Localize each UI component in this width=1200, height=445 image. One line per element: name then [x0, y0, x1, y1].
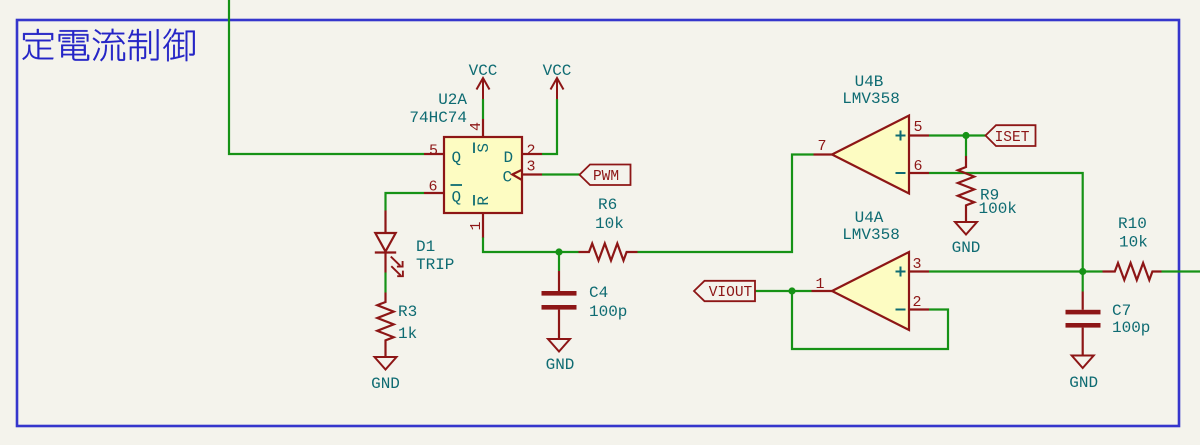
svg-text:VIOUT: VIOUT [709, 285, 753, 301]
pin 1 lead [812, 290, 833, 292]
pin 7 lead [814, 153, 833, 155]
VCC power symbol 2 [543, 62, 572, 99]
LED D1 [375, 211, 455, 277]
wire U2A pin1 down right to junction [483, 237, 579, 252]
wire D1 to R3 [384, 273, 386, 293]
svg-text:D: D [504, 149, 514, 167]
svg-text:Q: Q [452, 149, 462, 167]
svg-text:1: 1 [815, 276, 824, 293]
wire U4A pin3 to junction [929, 270, 1083, 272]
PWM global label [580, 165, 631, 186]
wire U2A pin6 to D1 [386, 193, 425, 211]
svg-text:1: 1 [468, 221, 485, 230]
svg-text:R3: R3 [398, 303, 417, 321]
resistor R10 [1103, 215, 1162, 280]
wire junction to R10 [1083, 270, 1103, 272]
resistor R9 [958, 156, 1017, 222]
svg-text:C4: C4 [589, 284, 608, 302]
svg-text:2: 2 [912, 294, 921, 311]
svg-text:GND: GND [546, 356, 575, 374]
svg-text:Q: Q [452, 189, 462, 207]
svg-text:4: 4 [468, 122, 485, 131]
pin 2 lead [909, 308, 929, 310]
wire R6 right to U4B output [638, 155, 814, 253]
resistor R3 [377, 293, 417, 357]
svg-text:U4A: U4A [855, 209, 884, 227]
wire U4B pin6 right and down [929, 173, 1083, 272]
junction at R6/C4 node [555, 248, 562, 255]
pin 3 lead [909, 270, 929, 272]
svg-text:3: 3 [526, 159, 535, 176]
svg-text:VCC: VCC [469, 62, 498, 80]
junction at VIOUT node [788, 287, 795, 294]
svg-text:6: 6 [913, 158, 922, 175]
minus sign [896, 309, 906, 311]
pin 1 lead [482, 213, 484, 238]
svg-text:U2A: U2A [438, 91, 467, 109]
svg-text:6: 6 [428, 179, 437, 196]
wire junction to C4 [558, 252, 560, 271]
svg-text:7: 7 [817, 138, 826, 155]
wire R10 right to edge [1162, 270, 1200, 272]
op-amp U4A [812, 209, 930, 330]
svg-text:R6: R6 [598, 196, 617, 214]
svg-text:C7: C7 [1112, 302, 1131, 320]
capacitor C7 [1066, 292, 1151, 356]
VCC power symbol 1 [469, 62, 498, 99]
junction at R10/C7 node [1079, 268, 1086, 275]
U2A 74HC74 flip-flop [409, 91, 542, 238]
svg-text:1k: 1k [398, 325, 417, 343]
svg-text:LMV358: LMV358 [842, 226, 900, 244]
pin 6 lead [909, 172, 929, 174]
svg-text:GND: GND [952, 239, 981, 257]
svg-text:TRIP: TRIP [416, 256, 454, 274]
svg-text:10k: 10k [595, 215, 624, 233]
wire from top to U2A pin 5 [229, 0, 1200, 349]
wire VIOUT to U4A pin1 [755, 290, 812, 292]
svg-text:D1: D1 [416, 238, 435, 256]
ground under R9 [952, 222, 981, 257]
ISET global label [986, 125, 1036, 146]
resistor R6 [579, 196, 638, 261]
plus sign [896, 267, 906, 310]
svg-text:5: 5 [913, 119, 922, 136]
clock wedge pin 3 [512, 170, 522, 180]
wire vertical top [229, 0, 424, 154]
VIOUT global label [694, 281, 755, 301]
svg-text:ISET: ISET [995, 130, 1030, 146]
svg-text:74HC74: 74HC74 [409, 109, 467, 127]
junction dots [555, 132, 1086, 295]
U2A body [444, 137, 522, 213]
wire junction to C7 [1082, 272, 1084, 292]
svg-text:LMV358: LMV358 [842, 90, 900, 108]
wire junction to R9 [965, 136, 967, 157]
svg-text:C: C [503, 169, 513, 187]
op-amp U4B [814, 73, 930, 194]
wire pin3 to PWM label [542, 173, 580, 175]
capacitor C4 [542, 271, 628, 339]
svg-text:VCC: VCC [543, 62, 572, 80]
svg-text:R: R [475, 196, 493, 206]
plus sign [896, 131, 906, 174]
pin 5 lead [909, 134, 929, 136]
svg-text:GND: GND [371, 375, 400, 393]
pin 5 lead [424, 153, 444, 155]
svg-text:U4B: U4B [855, 73, 884, 91]
svg-text:PWM: PWM [593, 169, 619, 185]
svg-text:S: S [475, 143, 493, 153]
pin 2 lead [522, 153, 542, 155]
wire U4A feedback loop [792, 291, 948, 349]
svg-text:2: 2 [526, 143, 535, 160]
minus sign [896, 172, 906, 174]
svg-text:3: 3 [912, 256, 921, 273]
pin 4 lead [482, 119, 484, 137]
svg-text:100p: 100p [589, 303, 627, 321]
pin 3 lead [522, 173, 542, 175]
pin 6 lead [424, 192, 444, 194]
ground under R3 [371, 357, 400, 393]
ground under C4 [546, 339, 575, 374]
wire VCC1 to pin4 [482, 99, 484, 119]
wire U4B pin5 to ISET [929, 134, 986, 136]
junction at ISET node [962, 132, 969, 139]
svg-text:100p: 100p [1112, 319, 1150, 337]
ground under C7 [1069, 356, 1098, 393]
wire VCC2 to pin2 [542, 99, 557, 154]
svg-text:GND: GND [1069, 374, 1098, 392]
svg-text:100k: 100k [979, 200, 1017, 218]
svg-text:R10: R10 [1118, 215, 1147, 233]
svg-text:5: 5 [429, 143, 438, 160]
sheet title 定電流制御 [22, 29, 194, 62]
svg-text:10k: 10k [1119, 234, 1148, 252]
